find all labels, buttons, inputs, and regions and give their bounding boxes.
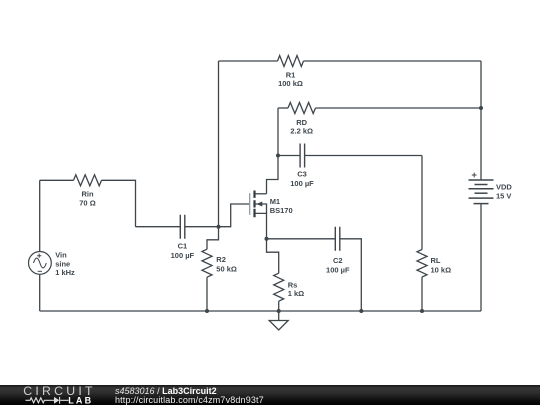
wire Vin bottom lead <box>39 274 41 311</box>
wire top R1 row right lead <box>304 60 482 62</box>
label C3 <box>290 170 314 188</box>
svg-text:100 kΩ: 100 kΩ <box>278 79 303 88</box>
wire top R1 row left lead <box>219 60 278 62</box>
svg-text:100 µF: 100 µF <box>326 265 350 274</box>
resistor RL <box>417 250 427 277</box>
resistor Rs <box>274 273 284 301</box>
footer bar <box>0 385 540 405</box>
transistor M1 channel bars <box>253 191 255 218</box>
transistor M1 body arrow <box>256 202 262 207</box>
wire C1 right lead <box>185 226 219 228</box>
label RD <box>290 118 313 136</box>
ground <box>269 311 288 330</box>
node C2 rail junction <box>359 309 363 313</box>
svg-text:LAB: LAB <box>68 396 93 405</box>
node RD-right junction <box>479 106 483 110</box>
wire C2 right lead <box>340 239 361 311</box>
svg-text:1 kΩ: 1 kΩ <box>288 289 304 298</box>
svg-text:100 µF: 100 µF <box>290 179 314 188</box>
svg-text:C3: C3 <box>297 170 307 179</box>
wire Rs bottom lead <box>278 301 280 311</box>
node source junction <box>265 237 269 241</box>
footer text <box>115 387 264 405</box>
label R2 <box>216 255 237 274</box>
battery VDD plates <box>469 180 494 204</box>
battery plus sign <box>472 173 477 178</box>
svg-text:15 V: 15 V <box>496 191 511 200</box>
transistor M1 gate bar <box>249 193 251 215</box>
svg-text:50 kΩ: 50 kΩ <box>216 265 237 274</box>
svg-text:Rs: Rs <box>288 280 298 289</box>
wire right vertical to battery <box>480 61 482 180</box>
label C1 <box>171 242 195 260</box>
resistor RD <box>288 103 315 114</box>
wire C3 right plate to RL column <box>305 155 422 157</box>
node R2 rail junction <box>205 309 209 313</box>
CircuitLab logo <box>0 385 110 405</box>
svg-text:Rin: Rin <box>81 190 94 199</box>
voltage source Vin <box>29 252 52 275</box>
wire battery bottom lead <box>480 204 482 311</box>
wire C1 left lead <box>136 226 181 228</box>
wire gate node jog to M1 gate <box>219 204 250 227</box>
node RL rail junction <box>420 309 424 313</box>
wire RL column upper <box>421 156 423 250</box>
svg-text:BS170: BS170 <box>270 206 293 215</box>
wire Rin row left <box>40 179 74 181</box>
capacitor C2 <box>335 227 340 251</box>
label M1 <box>270 197 293 215</box>
svg-text:100 µF: 100 µF <box>171 251 195 260</box>
svg-text:M1: M1 <box>270 197 280 206</box>
svg-text:RD: RD <box>296 118 307 127</box>
wire RD right lead <box>316 107 482 109</box>
capacitor C1 <box>180 215 185 239</box>
wire drain node to C3 left plate <box>278 155 300 157</box>
svg-text:RL: RL <box>431 256 441 265</box>
wire source node down jog to Rs <box>267 239 279 273</box>
svg-text:1 kHz: 1 kHz <box>55 268 75 277</box>
label VDD <box>496 182 512 200</box>
node gate junction <box>217 225 221 229</box>
wire RL column lower <box>421 277 423 311</box>
label RL <box>431 256 452 275</box>
transistor M1 body lead <box>255 204 267 213</box>
wire Rin row right <box>102 180 136 226</box>
svg-text:R1: R1 <box>286 71 296 80</box>
svg-text:C2: C2 <box>333 256 343 265</box>
svg-text:Vin: Vin <box>55 250 67 259</box>
svg-text:sine: sine <box>55 259 70 268</box>
resistor R1 <box>278 56 304 67</box>
svg-text:R2: R2 <box>216 255 226 264</box>
wire drain node down jog to M1 drain <box>267 156 279 194</box>
wire RD left lead <box>278 107 288 109</box>
svg-text:70 Ω: 70 Ω <box>79 198 95 207</box>
label Vin <box>55 250 75 277</box>
node ground rail junction <box>277 309 281 313</box>
node drain junction <box>276 154 280 158</box>
svg-text:VDD: VDD <box>496 182 512 191</box>
wire left vertical gate node to R1 <box>218 61 220 227</box>
wire gate node down jog to R2 <box>207 227 219 250</box>
label Rs <box>288 280 304 298</box>
transistor M1 source lead <box>255 213 267 238</box>
svg-text:10 kΩ: 10 kΩ <box>431 266 452 275</box>
label C2 <box>326 256 350 274</box>
label Rin <box>79 190 95 208</box>
capacitor C3 <box>300 144 305 168</box>
label R1 <box>278 71 303 89</box>
wire RD left terminal down to drain node <box>277 108 279 156</box>
transistor M1 drain lead <box>255 193 267 195</box>
wire Vin top lead <box>39 180 41 251</box>
svg-text:C1: C1 <box>178 242 188 251</box>
svg-text:2.2 kΩ: 2.2 kΩ <box>290 127 313 136</box>
wire bottom rail <box>40 310 481 312</box>
wire R2 bottom lead <box>206 277 208 311</box>
wire source node to C2 left plate <box>267 238 336 240</box>
resistor R2 <box>202 249 212 277</box>
resistor Rin <box>74 175 102 186</box>
